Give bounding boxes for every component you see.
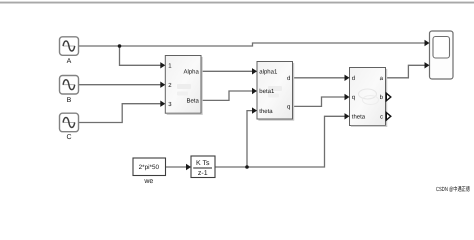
svg-text:beta1: beta1: [259, 88, 275, 95]
svg-text:Beta: Beta: [186, 98, 199, 105]
svg-text:2*pi*50: 2*pi*50: [139, 164, 160, 171]
node junction dot theta: [245, 165, 249, 169]
svg-text:d: d: [287, 75, 290, 82]
scope block: [430, 31, 454, 79]
sine wave source A: [60, 37, 79, 56]
subsystem U1 Clarke transform block: [165, 56, 202, 115]
U1 input arrow 3: [160, 101, 165, 107]
svg-text:q: q: [352, 95, 355, 101]
svg-text:A: A: [67, 58, 72, 65]
wire integrator out trunk to block3 theta: [215, 116, 345, 167]
wire q out to q in: [293, 97, 346, 106]
svg-text:alpha1: alpha1: [259, 69, 278, 76]
svg-text:Alpha: Alpha: [183, 69, 199, 76]
U2 input arrow theta: [252, 107, 257, 113]
U1 input arrow 1: [160, 62, 165, 68]
svg-text:we: we: [143, 178, 153, 185]
wire A branch down to block1 input 1: [120, 46, 162, 65]
integrator input arrow: [186, 164, 191, 170]
subsystem U3 inverse Park block: [350, 68, 388, 127]
svg-text:K Ts: K Ts: [196, 160, 210, 167]
wire Alpha to alpha1: [201, 70, 253, 72]
U3 input arrow q: [345, 94, 350, 100]
svg-text:B: B: [67, 97, 72, 104]
sine wave source C: [60, 113, 79, 132]
U3 open output port c: [386, 113, 391, 121]
wire a out to scope input 2: [386, 65, 426, 78]
wire Beta to beta1: [201, 91, 253, 100]
wire constant we to integrator: [166, 166, 187, 168]
svg-text:z-1: z-1: [198, 170, 208, 177]
top window separator line: [0, 2, 474, 4]
svg-text:c: c: [380, 115, 383, 121]
scope input arrow 2: [425, 62, 430, 68]
wire d out to d in: [293, 77, 346, 79]
node junction dot A: [118, 44, 122, 48]
svg-text:theta: theta: [259, 108, 273, 115]
wire theta branch up to block2: [247, 111, 253, 167]
subsystem U2 Park transform block: [257, 62, 294, 121]
sine wave source B: [60, 76, 79, 95]
U2 input arrow beta1: [252, 88, 257, 94]
svg-text:d: d: [352, 75, 355, 82]
svg-text:q: q: [287, 105, 290, 111]
constant block we 2*pi*50: [133, 158, 166, 176]
U2 input arrow alpha1: [252, 68, 257, 74]
U3 input arrow theta: [345, 113, 350, 119]
wire A out to scope (with step up): [79, 43, 426, 46]
svg-text:theta: theta: [352, 114, 366, 121]
U3 input arrow d: [345, 75, 350, 81]
scope input arrow 1: [425, 40, 430, 46]
U1 input arrow 2: [160, 82, 165, 88]
wire C out to block1 input 3: [79, 104, 162, 123]
wire B out to block1 input 2: [79, 84, 162, 86]
svg-text:CSDN @中遇正德: CSDN @中遇正德: [436, 185, 470, 193]
discrete integrator block K Ts / z-1: [191, 156, 215, 178]
U3 open output port b: [386, 93, 391, 101]
svg-text:C: C: [66, 134, 71, 141]
